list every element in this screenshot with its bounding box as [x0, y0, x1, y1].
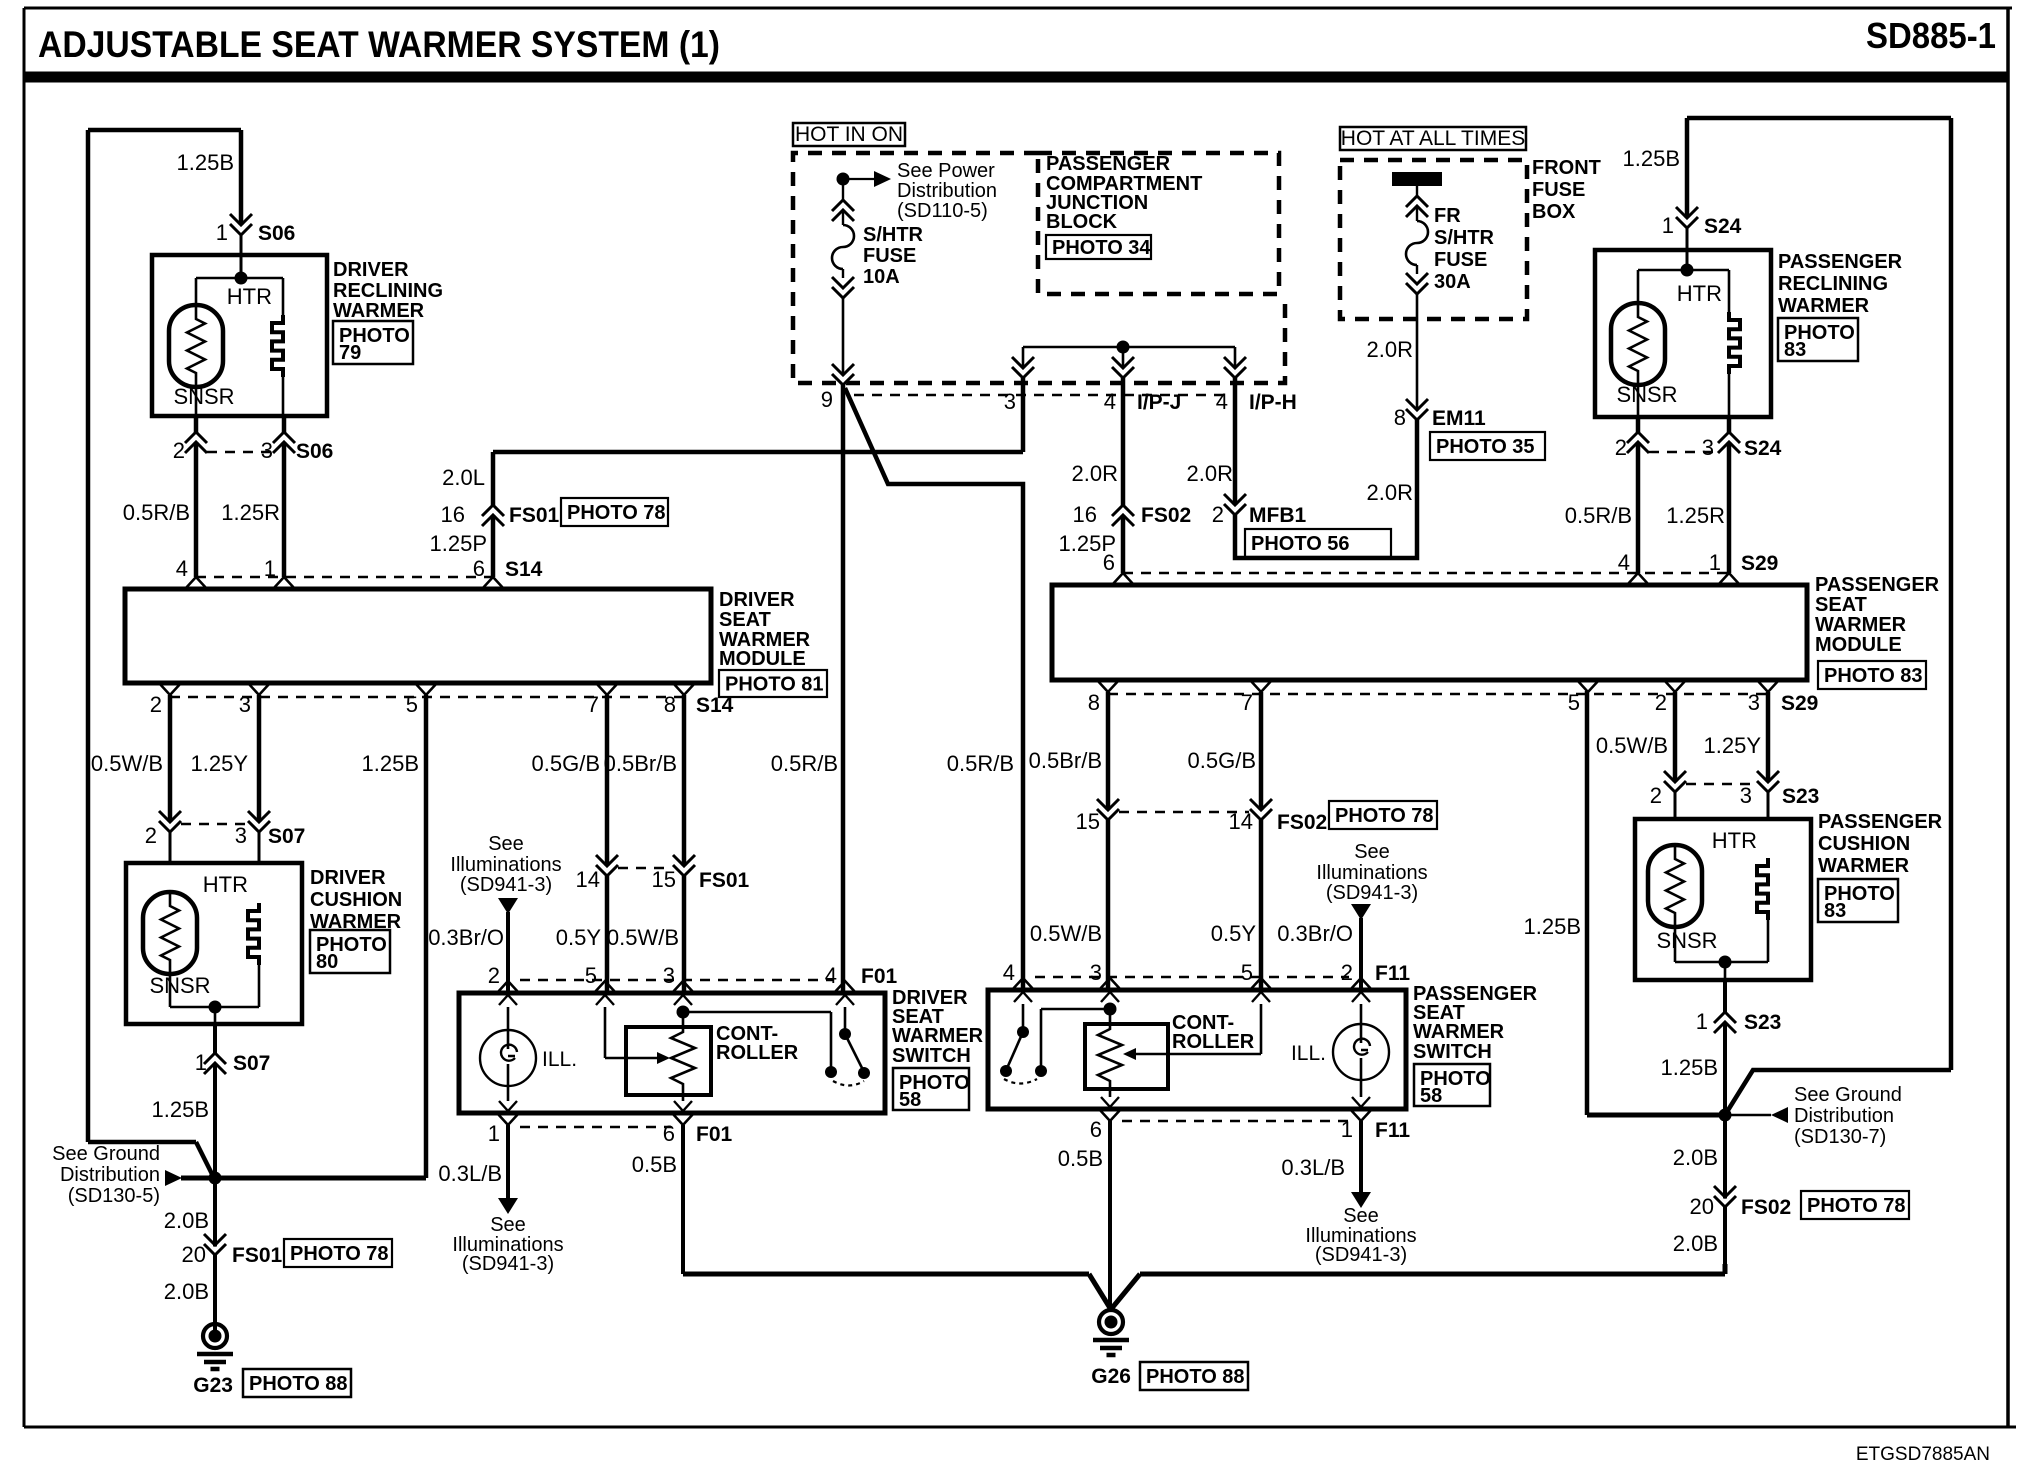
svg-text:1: 1: [488, 1121, 500, 1146]
svg-text:16: 16: [1073, 502, 1097, 527]
svg-text:1.25R: 1.25R: [221, 500, 280, 525]
svg-text:2.0R: 2.0R: [1072, 461, 1118, 486]
svg-text:S07: S07: [268, 825, 305, 848]
svg-text:0.5W/B: 0.5W/B: [1030, 921, 1102, 946]
svg-text:2.0B: 2.0B: [164, 1208, 209, 1233]
svg-text:1.25R: 1.25R: [1666, 503, 1725, 528]
svg-text:7: 7: [1241, 690, 1253, 715]
svg-text:2: 2: [1615, 435, 1627, 460]
svg-text:SD885-1: SD885-1: [1866, 15, 1996, 56]
svg-text:9: 9: [821, 387, 833, 412]
svg-text:0.5Y: 0.5Y: [1211, 921, 1257, 946]
svg-text:F11: F11: [1375, 1119, 1410, 1142]
svg-text:1.25Y: 1.25Y: [1704, 733, 1762, 758]
svg-text:30A: 30A: [1434, 271, 1471, 293]
svg-text:WARMER: WARMER: [1818, 855, 1910, 877]
svg-text:58: 58: [899, 1089, 921, 1111]
svg-text:FS02: FS02: [1141, 504, 1191, 527]
svg-text:8: 8: [1394, 405, 1406, 430]
svg-text:See: See: [488, 833, 524, 855]
svg-text:FS02: FS02: [1741, 1196, 1791, 1219]
svg-text:SWITCH: SWITCH: [892, 1045, 971, 1067]
svg-text:WARMER: WARMER: [892, 1025, 984, 1047]
svg-text:3: 3: [1702, 435, 1714, 460]
svg-text:FS01: FS01: [509, 504, 560, 527]
svg-text:20: 20: [182, 1242, 206, 1267]
svg-text:0.5Br/B: 0.5Br/B: [1029, 748, 1102, 773]
svg-text:SWITCH: SWITCH: [1413, 1041, 1492, 1063]
svg-text:SEAT: SEAT: [719, 609, 771, 631]
svg-text:Distribution: Distribution: [60, 1164, 160, 1186]
svg-text:WARMER: WARMER: [1815, 614, 1907, 636]
svg-text:S06: S06: [258, 222, 295, 245]
svg-text:2.0R: 2.0R: [1187, 461, 1233, 486]
svg-text:PASSENGER: PASSENGER: [1818, 811, 1943, 833]
svg-text:6: 6: [1090, 1117, 1102, 1142]
svg-text:0.3Br/O: 0.3Br/O: [1277, 921, 1353, 946]
svg-text:RECLINING: RECLINING: [333, 280, 443, 302]
svg-text:HOT IN ON: HOT IN ON: [795, 123, 903, 146]
svg-text:(SD941-3): (SD941-3): [462, 1253, 554, 1275]
svg-text:15: 15: [1076, 809, 1100, 834]
svg-text:14: 14: [576, 867, 600, 892]
svg-text:1.25P: 1.25P: [430, 531, 488, 556]
svg-text:I/P-J: I/P-J: [1137, 391, 1181, 414]
svg-text:(SD941-3): (SD941-3): [1326, 882, 1418, 904]
svg-text:0.3Br/O: 0.3Br/O: [428, 925, 504, 950]
svg-text:(SD941-3): (SD941-3): [1315, 1244, 1407, 1266]
svg-text:1: 1: [195, 1050, 207, 1075]
svg-text:FRONT: FRONT: [1532, 157, 1601, 179]
svg-text:CUSHION: CUSHION: [310, 889, 402, 911]
svg-text:I/P-H: I/P-H: [1249, 391, 1297, 414]
svg-text:RECLINING: RECLINING: [1778, 273, 1888, 295]
svg-text:S23: S23: [1782, 785, 1819, 808]
svg-text:1: 1: [264, 556, 276, 581]
svg-text:1.25B: 1.25B: [1524, 914, 1582, 939]
svg-text:See: See: [490, 1214, 526, 1236]
svg-text:BOX: BOX: [1532, 201, 1576, 223]
svg-text:0.5W/B: 0.5W/B: [607, 925, 679, 950]
svg-text:5: 5: [406, 692, 418, 717]
svg-text:16: 16: [441, 502, 465, 527]
svg-text:2: 2: [1212, 502, 1224, 527]
svg-text:1.25B: 1.25B: [1661, 1055, 1719, 1080]
svg-text:F01: F01: [861, 965, 898, 988]
svg-text:20: 20: [1690, 1194, 1714, 1219]
svg-text:0.3L/B: 0.3L/B: [438, 1161, 502, 1186]
svg-text:10A: 10A: [863, 266, 900, 288]
svg-text:S29: S29: [1741, 552, 1778, 575]
svg-text:SNSR: SNSR: [149, 973, 210, 998]
svg-text:1: 1: [216, 220, 228, 245]
svg-text:FS01: FS01: [699, 869, 750, 892]
svg-text:EM11: EM11: [1432, 407, 1486, 430]
svg-text:PASSENGER: PASSENGER: [1046, 153, 1171, 175]
svg-text:S/HTR: S/HTR: [1434, 227, 1495, 249]
svg-text:PHOTO 81: PHOTO 81: [725, 674, 824, 696]
svg-text:PASSENGER: PASSENGER: [1815, 574, 1940, 596]
svg-text:3: 3: [1740, 783, 1752, 808]
svg-text:15: 15: [652, 867, 676, 892]
svg-text:See Ground: See Ground: [1794, 1084, 1902, 1106]
svg-text:8: 8: [664, 692, 676, 717]
svg-text:WARMER: WARMER: [1778, 295, 1870, 317]
svg-text:2: 2: [173, 438, 185, 463]
svg-text:1.25B: 1.25B: [362, 751, 420, 776]
svg-text:2: 2: [488, 963, 500, 988]
svg-text:SNSR: SNSR: [1616, 382, 1677, 407]
svg-text:PHOTO 78: PHOTO 78: [1807, 1195, 1906, 1217]
svg-text:2.0B: 2.0B: [164, 1279, 209, 1304]
svg-text:PHOTO 78: PHOTO 78: [567, 502, 666, 524]
svg-text:1: 1: [1696, 1009, 1708, 1034]
svg-text:83: 83: [1824, 900, 1846, 922]
svg-text:PHOTO 83: PHOTO 83: [1824, 665, 1923, 687]
svg-text:FUSE: FUSE: [1434, 249, 1487, 271]
svg-text:0.5G/B: 0.5G/B: [1188, 748, 1256, 773]
svg-text:FS02: FS02: [1277, 811, 1327, 834]
svg-text:DRIVER: DRIVER: [719, 589, 795, 611]
svg-text:0.5B: 0.5B: [1058, 1146, 1103, 1171]
svg-text:S/HTR: S/HTR: [863, 224, 924, 246]
svg-text:S07: S07: [233, 1052, 270, 1075]
svg-text:83: 83: [1784, 339, 1806, 361]
svg-text:3: 3: [235, 823, 247, 848]
svg-text:G23: G23: [193, 1374, 233, 1397]
svg-text:Illuminations: Illuminations: [450, 854, 561, 876]
svg-text:FUSE: FUSE: [863, 245, 916, 267]
svg-text:4: 4: [1104, 389, 1116, 414]
svg-text:5: 5: [585, 963, 597, 988]
svg-text:4: 4: [1618, 550, 1630, 575]
svg-text:ROLLER: ROLLER: [716, 1042, 799, 1064]
svg-text:0.3L/B: 0.3L/B: [1281, 1155, 1345, 1180]
svg-text:3: 3: [1748, 690, 1760, 715]
svg-text:58: 58: [1420, 1085, 1442, 1107]
svg-text:S29: S29: [1781, 692, 1818, 715]
svg-text:4: 4: [176, 556, 188, 581]
svg-text:Distribution: Distribution: [1794, 1105, 1894, 1127]
svg-text:0.5B: 0.5B: [632, 1152, 677, 1177]
svg-text:2: 2: [150, 692, 162, 717]
svg-text:See Power: See Power: [897, 160, 995, 182]
svg-text:1.25B: 1.25B: [152, 1097, 210, 1122]
svg-text:PHOTO 34: PHOTO 34: [1052, 237, 1151, 259]
svg-text:Distribution: Distribution: [897, 180, 997, 202]
svg-text:PHOTO 78: PHOTO 78: [290, 1243, 389, 1265]
svg-text:0.5Y: 0.5Y: [556, 925, 602, 950]
svg-text:F11: F11: [1375, 962, 1410, 985]
svg-text:6: 6: [663, 1121, 675, 1146]
svg-text:1: 1: [1709, 550, 1721, 575]
svg-text:PHOTO 78: PHOTO 78: [1335, 805, 1434, 827]
svg-text:1: 1: [1341, 1117, 1353, 1142]
svg-text:4: 4: [1216, 389, 1228, 414]
svg-text:WARMER: WARMER: [333, 300, 425, 322]
svg-text:2.0B: 2.0B: [1673, 1145, 1718, 1170]
svg-text:ILL.: ILL.: [1291, 1042, 1326, 1065]
svg-text:2.0R: 2.0R: [1367, 337, 1413, 362]
svg-text:2: 2: [1341, 960, 1353, 985]
svg-text:ADJUSTABLE SEAT WARMER SYSTEM: ADJUSTABLE SEAT WARMER SYSTEM (1): [38, 24, 720, 65]
svg-text:HTR: HTR: [227, 284, 272, 309]
svg-text:ROLLER: ROLLER: [1172, 1031, 1255, 1053]
svg-text:14: 14: [1229, 809, 1253, 834]
svg-text:8: 8: [1088, 690, 1100, 715]
svg-text:DRIVER: DRIVER: [333, 259, 409, 281]
svg-text:S24: S24: [1744, 437, 1782, 460]
svg-text:2: 2: [145, 823, 157, 848]
svg-text:HTR: HTR: [1677, 281, 1722, 306]
svg-text:3: 3: [239, 692, 251, 717]
svg-text:See: See: [1343, 1205, 1379, 1227]
svg-text:4: 4: [825, 963, 837, 988]
svg-text:4: 4: [1003, 960, 1015, 985]
svg-text:2.0B: 2.0B: [1673, 1231, 1718, 1256]
svg-text:WARMER: WARMER: [1413, 1021, 1505, 1043]
svg-text:PASSENGER: PASSENGER: [1778, 251, 1903, 273]
svg-text:SEAT: SEAT: [1815, 594, 1867, 616]
svg-text:0.5R/B: 0.5R/B: [1565, 503, 1632, 528]
svg-text:0.5Br/B: 0.5Br/B: [604, 751, 677, 776]
svg-text:0.5R/B: 0.5R/B: [771, 751, 838, 776]
svg-text:1.25B: 1.25B: [1623, 146, 1681, 171]
svg-text:(SD941-3): (SD941-3): [460, 874, 552, 896]
svg-text:MODULE: MODULE: [1815, 634, 1902, 656]
svg-text:6: 6: [1103, 550, 1115, 575]
svg-text:HTR: HTR: [203, 872, 248, 897]
svg-text:SNSR: SNSR: [173, 384, 234, 409]
svg-text:0.5R/B: 0.5R/B: [947, 751, 1014, 776]
svg-text:3: 3: [1004, 389, 1016, 414]
svg-text:80: 80: [316, 951, 338, 973]
svg-text:S14: S14: [505, 558, 543, 581]
svg-text:ILL.: ILL.: [542, 1048, 577, 1071]
svg-text:3: 3: [261, 438, 273, 463]
svg-text:0.5W/B: 0.5W/B: [91, 751, 163, 776]
svg-text:0.5W/B: 0.5W/B: [1596, 733, 1668, 758]
svg-text:PHOTO 35: PHOTO 35: [1436, 436, 1535, 458]
svg-text:See Ground: See Ground: [52, 1143, 160, 1165]
svg-text:2: 2: [1650, 783, 1662, 808]
svg-text:1.25Y: 1.25Y: [191, 751, 249, 776]
svg-text:PHOTO 88: PHOTO 88: [1146, 1366, 1245, 1388]
svg-text:5: 5: [1568, 690, 1580, 715]
svg-text:MODULE: MODULE: [719, 648, 806, 670]
svg-text:5: 5: [1241, 960, 1253, 985]
svg-text:FS01: FS01: [232, 1244, 283, 1267]
svg-text:PHOTO 88: PHOTO 88: [249, 1373, 348, 1395]
svg-text:ETGSD7885AN: ETGSD7885AN: [1856, 1444, 1990, 1465]
svg-text:2.0R: 2.0R: [1367, 480, 1413, 505]
svg-text:S06: S06: [296, 440, 333, 463]
svg-text:1.25B: 1.25B: [177, 150, 235, 175]
svg-text:3: 3: [663, 963, 675, 988]
svg-text:HOT AT ALL TIMES: HOT AT ALL TIMES: [1341, 127, 1525, 150]
svg-text:MFB1: MFB1: [1249, 504, 1306, 527]
svg-text:G26: G26: [1091, 1365, 1131, 1388]
svg-text:6: 6: [473, 556, 485, 581]
svg-text:CUSHION: CUSHION: [1818, 833, 1910, 855]
svg-text:BLOCK: BLOCK: [1046, 211, 1118, 233]
svg-text:PHOTO 56: PHOTO 56: [1251, 533, 1350, 555]
svg-text:0.5R/B: 0.5R/B: [123, 500, 190, 525]
svg-text:F01: F01: [696, 1123, 733, 1146]
svg-text:1: 1: [1662, 213, 1674, 238]
svg-text:Illuminations: Illuminations: [1316, 862, 1427, 884]
svg-text:(SD130-7): (SD130-7): [1794, 1126, 1886, 1148]
svg-text:7: 7: [587, 692, 599, 717]
svg-text:(SD130-5): (SD130-5): [68, 1185, 160, 1207]
svg-text:SNSR: SNSR: [1656, 928, 1717, 953]
svg-text:2: 2: [1655, 690, 1667, 715]
svg-text:DRIVER: DRIVER: [310, 867, 386, 889]
svg-text:S23: S23: [1744, 1011, 1781, 1034]
svg-text:FR: FR: [1434, 205, 1461, 227]
svg-text:3: 3: [1090, 960, 1102, 985]
svg-text:FUSE: FUSE: [1532, 179, 1585, 201]
svg-text:HTR: HTR: [1712, 828, 1757, 853]
svg-text:See: See: [1354, 841, 1390, 863]
svg-text:(SD110-5): (SD110-5): [897, 200, 988, 222]
svg-text:0.5G/B: 0.5G/B: [532, 751, 600, 776]
svg-text:S24: S24: [1704, 215, 1742, 238]
svg-text:79: 79: [339, 342, 361, 364]
svg-text:2.0L: 2.0L: [442, 465, 485, 490]
